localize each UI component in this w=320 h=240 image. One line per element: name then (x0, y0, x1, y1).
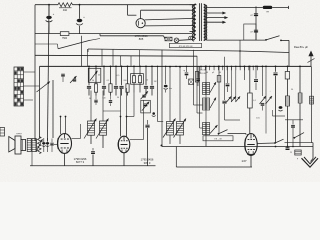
svg-text:805: 805 (139, 37, 144, 41)
svg-text:JPD 08 JPD 08: JPD 08 JPD 08 (179, 46, 194, 48)
svg-text:50m: 50m (256, 118, 260, 120)
svg-text:90: 90 (117, 97, 119, 99)
svg-text:≈g: ≈g (183, 70, 185, 72)
svg-text:8 8 – 08: 8 8 – 08 (214, 139, 222, 141)
svg-text:137: 137 (241, 159, 246, 163)
svg-text:6077 3: 6077 3 (76, 160, 85, 164)
svg-text:44Ω: 44Ω (63, 10, 68, 12)
svg-text:Raa 80+ µF: Raa 80+ µF (294, 45, 309, 49)
svg-text:μF0 08: μF0 08 (200, 73, 206, 75)
svg-text:7H: 7H (266, 11, 269, 13)
svg-text:1798 0296: 1798 0296 (74, 157, 87, 161)
svg-text:0m: 0m (169, 88, 172, 90)
svg-text:1795 0456: 1795 0456 (141, 157, 154, 161)
svg-text:××××: ×××× (16, 133, 22, 136)
svg-text:μF0 08: μF0 08 (200, 70, 206, 72)
svg-text:305 3: 305 3 (144, 161, 151, 165)
svg-text:1M: 1M (154, 81, 157, 83)
svg-text:↓: ↓ (269, 90, 270, 93)
svg-text:7500: 7500 (62, 38, 68, 40)
